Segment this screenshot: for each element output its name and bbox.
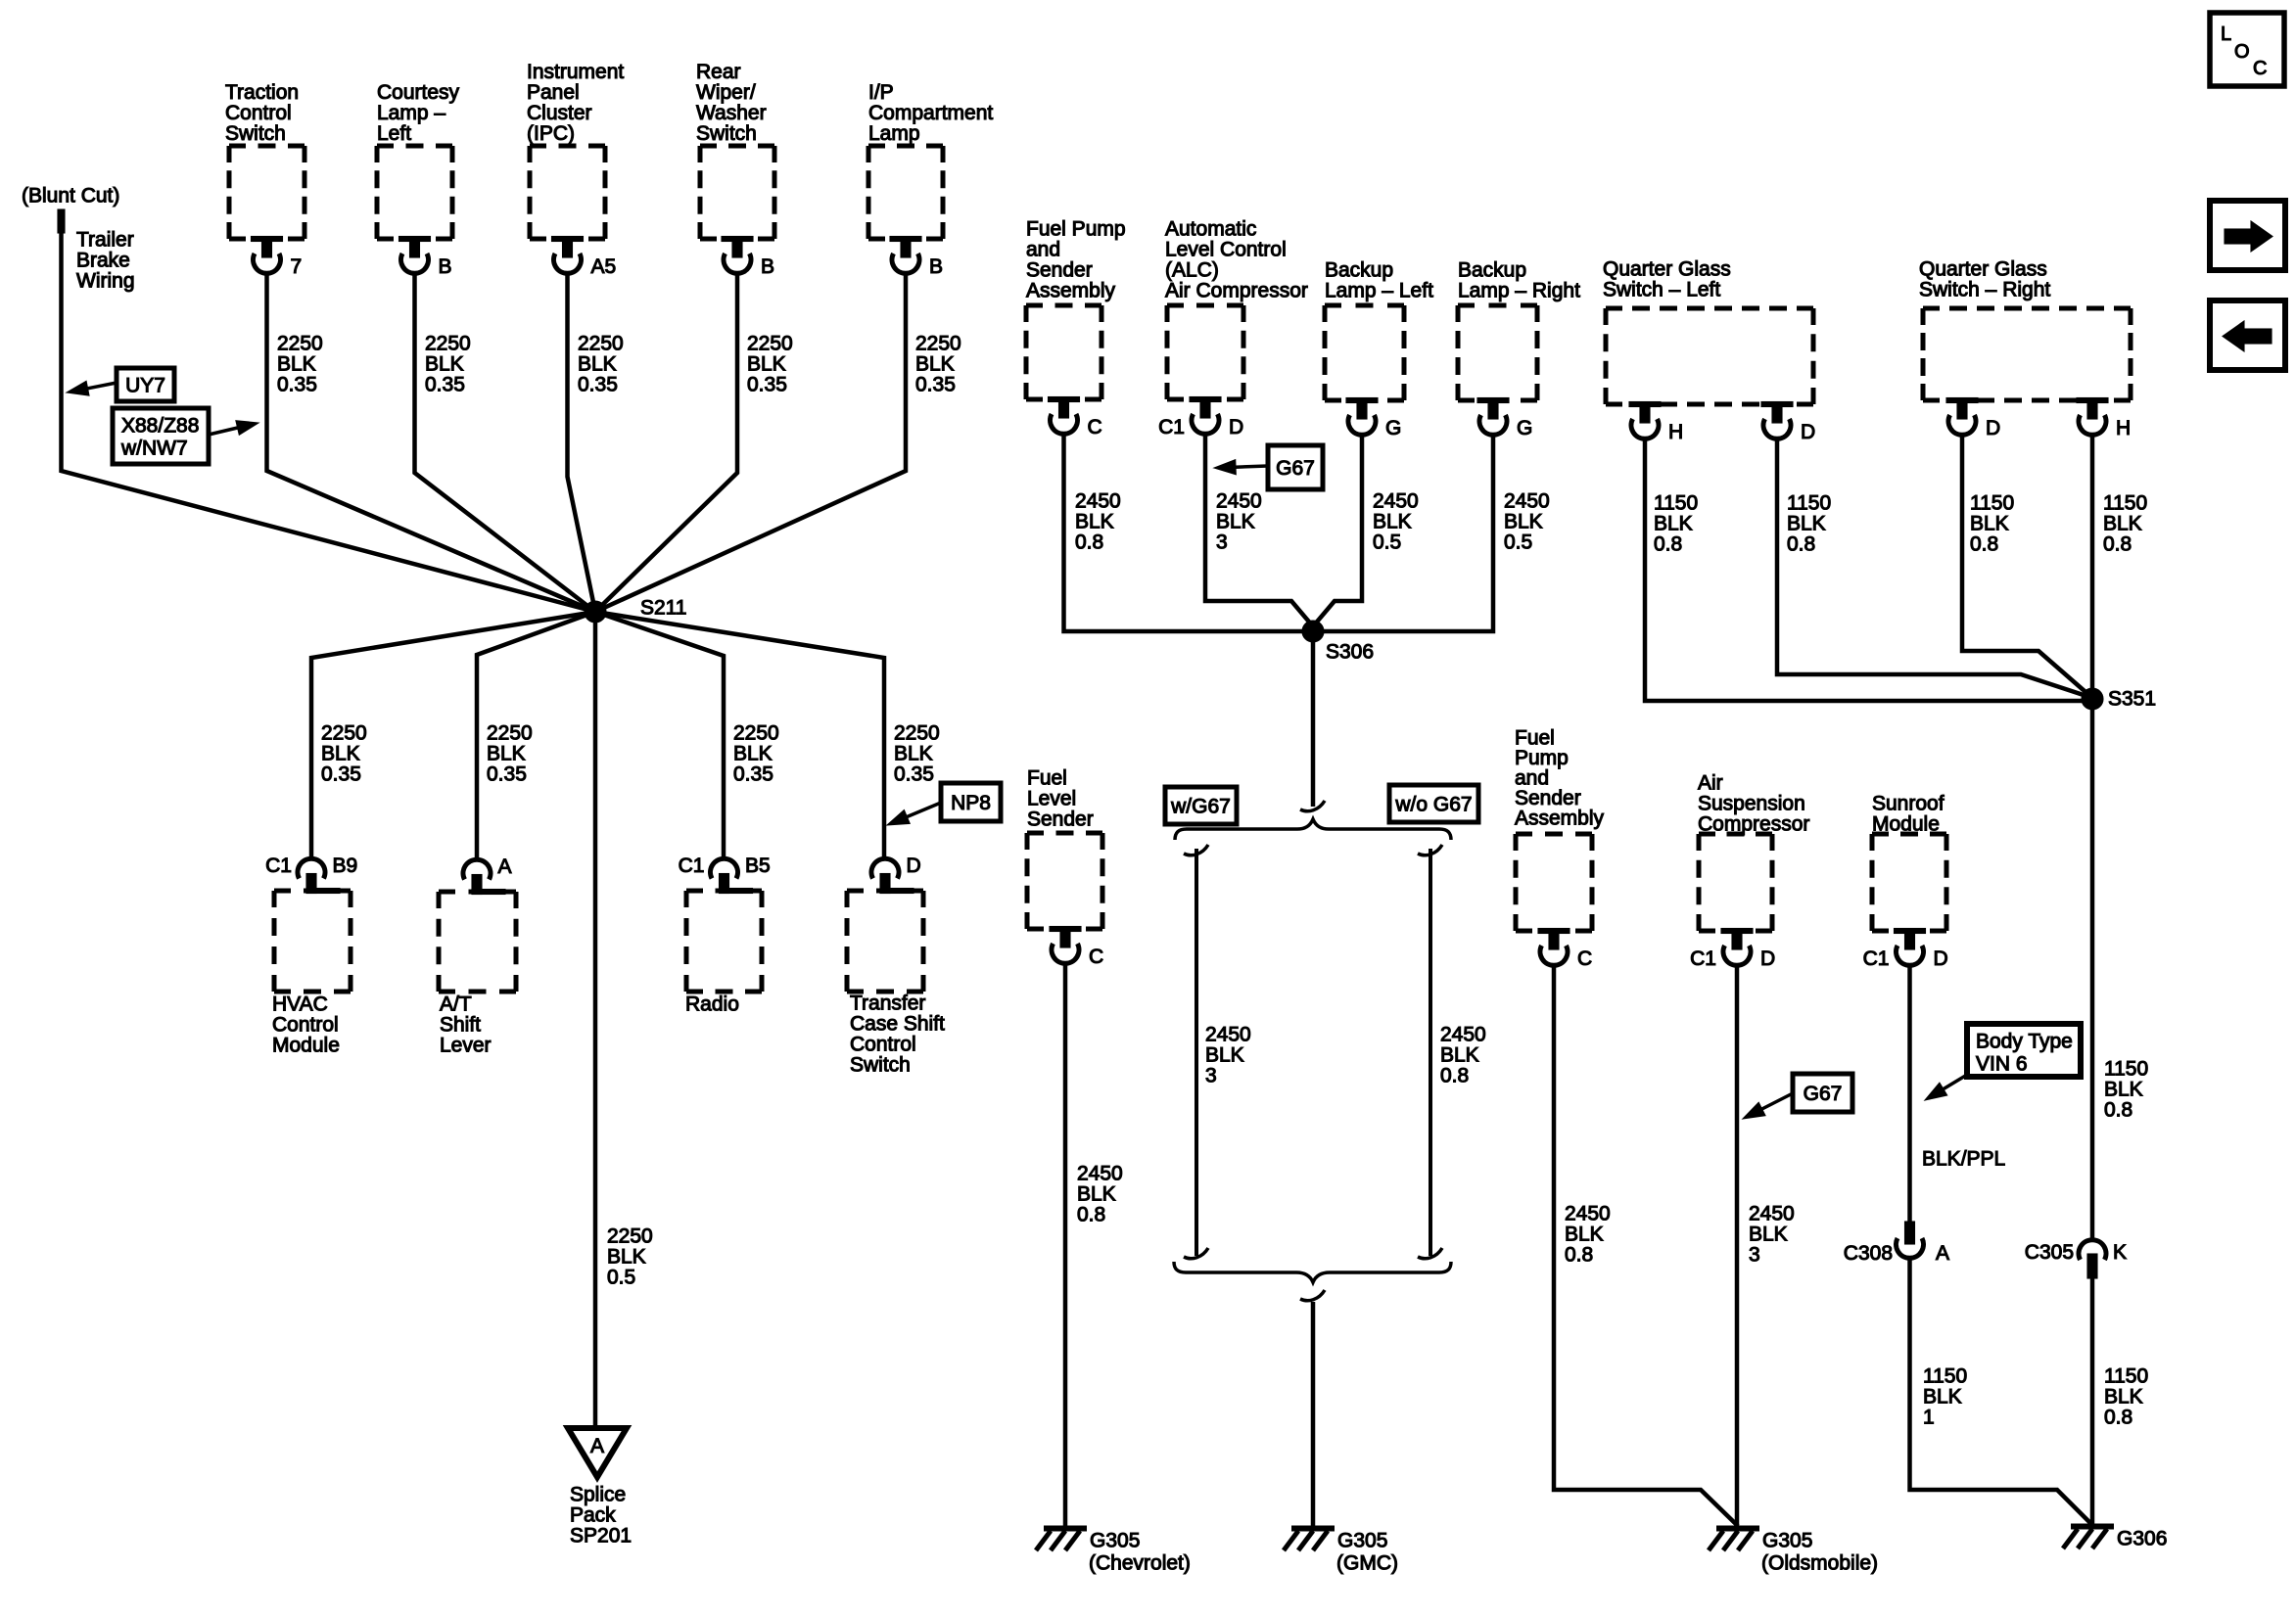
svg-text:Traction: Traction: [225, 81, 299, 104]
svg-text:O: O: [2234, 41, 2250, 63]
wire Instrument Panel Cluster to S211: [568, 273, 596, 612]
svg-text:Radio: Radio: [685, 993, 739, 1016]
label Automatic Level Control Air Compressor: [1165, 218, 1308, 302]
label A/T Shift Lever: [440, 993, 492, 1057]
svg-text:2250: 2250: [487, 722, 533, 745]
svg-text:D: D: [1801, 421, 1815, 443]
svg-text:Lever: Lever: [440, 1035, 492, 1057]
svg-text:BLK: BLK: [1787, 513, 1826, 535]
svg-text:BLK: BLK: [915, 353, 955, 376]
wire label 2250 BLK 0.5: [607, 1225, 653, 1289]
svg-text:G: G: [1385, 417, 1401, 439]
svg-text:D: D: [1760, 947, 1775, 970]
svg-text:1150: 1150: [2103, 492, 2147, 515]
svg-text:A: A: [590, 1435, 604, 1457]
svg-text:w/o G67: w/o G67: [1394, 794, 1472, 816]
component box Fuel Level Sender: [1027, 833, 1102, 929]
wire Rear Wiper Washer Switch to S211: [595, 273, 737, 612]
svg-text:BLK: BLK: [1373, 511, 1412, 533]
svg-text:7: 7: [291, 255, 303, 278]
ground G305 Oldsmobile: [1709, 1529, 1878, 1575]
svg-text:0.35: 0.35: [425, 374, 465, 396]
svg-text:C1: C1: [679, 855, 705, 877]
svg-text:and: and: [1026, 239, 1060, 261]
wire Fuel Pump C to S306: [1064, 434, 1314, 631]
callout w/o G67: [1389, 785, 1478, 822]
svg-text:0.35: 0.35: [578, 374, 618, 396]
svg-text:Body Type: Body Type: [1976, 1031, 2073, 1053]
wire Traction Control Switch to S211: [267, 273, 596, 612]
wire label 2250 BLK 0.35: [894, 722, 940, 786]
svg-text:0.8: 0.8: [1565, 1244, 1593, 1267]
connector pin B of Courtesy Lamp Left: [399, 237, 452, 279]
svg-text:S306: S306: [1326, 641, 1374, 664]
svg-text:BLK: BLK: [1654, 513, 1693, 535]
svg-text:0.35: 0.35: [321, 763, 361, 786]
wire Backup Lamp Right to S306: [1313, 435, 1493, 631]
splice S211: [585, 597, 687, 624]
svg-text:2450: 2450: [1216, 490, 1262, 513]
wire ALC D to S306: [1205, 434, 1313, 626]
wire label 2450 BLK 3: [1205, 1024, 1251, 1087]
component box Backup Lamp Right: [1458, 305, 1537, 400]
svg-text:0.8: 0.8: [2103, 533, 2132, 556]
svg-text:2450: 2450: [1440, 1024, 1486, 1046]
wire label 2250 BLK 0.35: [487, 722, 533, 786]
wire label 2250 BLK 0.35: [578, 333, 624, 396]
label Fuel Pump and Sender Assembly 2: [1515, 727, 1605, 830]
wire C305 K to ground G306: [2090, 1278, 2095, 1524]
connector pin 7 of Traction Control Switch: [252, 237, 303, 279]
svg-text:BLK: BLK: [747, 353, 786, 376]
svg-text:Transfer: Transfer: [850, 993, 925, 1015]
svg-text:C: C: [2253, 58, 2267, 79]
svg-text:B9: B9: [333, 855, 358, 877]
svg-text:(Blunt Cut): (Blunt Cut): [22, 185, 119, 208]
svg-text:BLK: BLK: [1923, 1386, 1962, 1409]
wire label 2250 BLK 0.35: [321, 722, 367, 786]
svg-text:0.5: 0.5: [1504, 531, 1532, 554]
connector pin B of Rear Wiper Washer Switch: [722, 237, 774, 279]
svg-text:0.35: 0.35: [894, 763, 934, 786]
svg-text:K: K: [2113, 1241, 2127, 1264]
svg-text:1150: 1150: [2104, 1058, 2148, 1081]
ground G305 GMC: [1284, 1529, 1398, 1575]
arrow G67 to Air Suspension wire: [1743, 1093, 1793, 1119]
svg-text:G: G: [1517, 417, 1532, 439]
icon arrow left box: [2210, 300, 2285, 370]
svg-text:G305: G305: [1337, 1530, 1387, 1552]
connector C1/B9 of HVAC Control Module: [265, 855, 357, 894]
svg-text:BLK/PPL: BLK/PPL: [1922, 1148, 2005, 1171]
svg-text:2250: 2250: [321, 722, 367, 745]
component box IP Compartment Lamp: [868, 146, 943, 239]
arrow NP8 to wire: [887, 803, 941, 825]
svg-text:UY7: UY7: [125, 375, 165, 397]
svg-text:A: A: [1936, 1242, 1949, 1265]
svg-text:Sender: Sender: [1026, 259, 1093, 282]
wire label 2450 BLK 3: [1749, 1203, 1795, 1267]
arrow X88/Z88 to wire: [209, 421, 258, 436]
wire label 2450 BLK 0.5: [1373, 490, 1419, 554]
wire label 1150 BLK 0.8: [1787, 492, 1831, 556]
svg-text:D: D: [907, 855, 921, 877]
svg-text:Quarter Glass: Quarter Glass: [1603, 258, 1731, 281]
wire label 2450 BLK 0.8: [1077, 1163, 1123, 1226]
component box A/T Shift Lever: [439, 892, 516, 992]
svg-text:3: 3: [1749, 1244, 1760, 1267]
connector C1/D of Air Suspension Compressor: [1690, 929, 1775, 971]
svg-text:Suspension: Suspension: [1698, 793, 1805, 815]
svg-text:Rear: Rear: [696, 61, 741, 83]
connector A of A/T Shift Lever: [463, 855, 512, 895]
wire label 2450 BLK 0.8: [1440, 1024, 1486, 1087]
svg-text:C308: C308: [1844, 1242, 1893, 1265]
break mark top w/o G67 branch: [1418, 845, 1442, 855]
label Trailer Brake Wiring: [76, 229, 135, 293]
label Rear Wiper Washer Switch: [696, 61, 767, 145]
connector G of Backup Lamp Right: [1477, 398, 1532, 440]
label Instrument Panel Cluster: [527, 61, 624, 145]
wire S211 to A/T Shift Lever: [477, 612, 595, 858]
svg-text:D: D: [1229, 416, 1243, 439]
svg-text:Instrument: Instrument: [527, 61, 624, 83]
svg-text:Level: Level: [1027, 788, 1076, 810]
label Fuel Level Sender: [1027, 767, 1094, 831]
svg-text:Backup: Backup: [1458, 259, 1526, 282]
wire Sunroof Module BLK/PPL: [1907, 965, 1912, 1222]
svg-text:BLK: BLK: [1504, 511, 1543, 533]
svg-text:BLK: BLK: [2104, 1079, 2143, 1101]
svg-text:Splice: Splice: [570, 1484, 626, 1506]
svg-text:Trailer: Trailer: [76, 229, 134, 252]
wire label 2450 BLK 0.8: [1565, 1203, 1611, 1267]
svg-text:1150: 1150: [2104, 1365, 2148, 1388]
wire label 2450 BLK 0.5: [1504, 490, 1550, 554]
arrow Body Type VIN 6 to wire: [1925, 1075, 1967, 1100]
ground G305 Chevrolet: [1036, 1529, 1191, 1575]
label Quarter Glass Switch Left: [1603, 258, 1731, 301]
svg-text:Case Shift: Case Shift: [850, 1013, 945, 1036]
label Traction Control Switch: [225, 81, 299, 145]
svg-text:B5: B5: [745, 855, 771, 877]
svg-text:2250: 2250: [578, 333, 624, 355]
wire label 2250 BLK 0.35: [747, 333, 793, 396]
svg-text:BLK: BLK: [1970, 513, 2009, 535]
svg-text:Automatic: Automatic: [1165, 218, 1256, 241]
svg-text:0.5: 0.5: [1373, 531, 1401, 554]
svg-text:1150: 1150: [1787, 492, 1831, 515]
svg-text:BLK: BLK: [2103, 513, 2142, 535]
svg-text:1150: 1150: [1970, 492, 2014, 515]
svg-text:G67: G67: [1276, 457, 1315, 480]
svg-text:Control: Control: [850, 1034, 916, 1056]
svg-text:BLK: BLK: [487, 743, 526, 765]
svg-text:Backup: Backup: [1325, 259, 1393, 282]
svg-text:Cluster: Cluster: [527, 102, 592, 124]
svg-text:VIN 6: VIN 6: [1976, 1053, 2028, 1076]
svg-text:BLK: BLK: [1565, 1224, 1604, 1246]
component box Sunroof Module: [1872, 834, 1946, 931]
svg-text:Switch: Switch: [225, 122, 286, 145]
svg-text:2450: 2450: [1077, 1163, 1123, 1185]
component box Quarter Glass Switch Right: [1923, 308, 2131, 400]
svg-text:0.8: 0.8: [2104, 1407, 2132, 1429]
svg-text:0.8: 0.8: [1440, 1065, 1469, 1087]
label Backup Lamp Left: [1325, 259, 1433, 302]
svg-text:Lamp: Lamp: [868, 122, 920, 145]
svg-text:Switch – Right: Switch – Right: [1919, 279, 2050, 301]
wire label 2250 BLK 0.35: [733, 722, 779, 786]
svg-text:Control: Control: [225, 102, 292, 124]
wire Backup Lamp Left to S306: [1313, 435, 1362, 626]
connector G of Backup Lamp Left: [1346, 398, 1401, 440]
svg-text:2450: 2450: [1565, 1203, 1611, 1225]
inline connector C305 pin K: [2025, 1240, 2127, 1278]
svg-text:BLK: BLK: [578, 353, 617, 376]
wire label 2450 BLK 0.8: [1075, 490, 1121, 554]
svg-text:0.35: 0.35: [277, 374, 317, 396]
svg-text:BLK: BLK: [1440, 1044, 1479, 1067]
svg-text:0.35: 0.35: [915, 374, 956, 396]
svg-text:NP8: NP8: [951, 792, 991, 814]
break mark bottom w/G67 branch: [1184, 1248, 1208, 1259]
svg-text:B: B: [439, 255, 452, 278]
wire label 1150 BLK 0.8 upper: [2104, 1058, 2148, 1122]
svg-text:2250: 2250: [894, 722, 940, 745]
svg-text:(IPC): (IPC): [527, 122, 575, 145]
label Backup Lamp Right: [1458, 259, 1580, 302]
svg-text:C1: C1: [265, 855, 292, 877]
svg-text:0.8: 0.8: [1970, 533, 1998, 556]
svg-text:A: A: [498, 855, 512, 878]
label IP Compartment Lamp: [868, 81, 993, 145]
svg-text:0.8: 0.8: [2104, 1099, 2132, 1122]
label Transfer Case Shift Control Switch: [850, 993, 945, 1077]
break mark top w/G67 branch: [1184, 845, 1208, 855]
svg-text:L: L: [2221, 23, 2231, 45]
svg-text:BLK: BLK: [1205, 1044, 1244, 1067]
svg-text:2250: 2250: [915, 333, 961, 355]
svg-text:Air Compressor: Air Compressor: [1165, 280, 1308, 302]
wire label 1150 BLK 0.8: [1970, 492, 2014, 556]
svg-text:0.8: 0.8: [1654, 533, 1682, 556]
svg-text:0.35: 0.35: [487, 763, 527, 786]
svg-text:2250: 2250: [747, 333, 793, 355]
svg-text:A5: A5: [591, 255, 617, 278]
svg-text:HVAC: HVAC: [272, 993, 328, 1016]
icon arrow right box: [2210, 201, 2285, 270]
svg-text:C: C: [1577, 947, 1592, 970]
svg-text:BLK: BLK: [1216, 511, 1255, 533]
connector D of Transfer Case Shift Control Switch: [871, 855, 921, 894]
svg-text:BLK: BLK: [1075, 511, 1114, 533]
svg-text:C: C: [1088, 416, 1102, 439]
svg-text:0.8: 0.8: [1075, 531, 1103, 554]
svg-text:G306: G306: [2117, 1528, 2167, 1550]
svg-text:Switch – Left: Switch – Left: [1603, 279, 1720, 301]
break mark below S306: [1300, 801, 1325, 811]
svg-text:BLK: BLK: [733, 743, 773, 765]
svg-text:2250: 2250: [425, 333, 471, 355]
component box Transfer Case Shift Control Switch: [847, 891, 923, 992]
svg-text:(ALC): (ALC): [1165, 259, 1219, 282]
component box Fuel Pump and Sender Assembly: [1026, 305, 1101, 399]
svg-text:SP201: SP201: [570, 1525, 632, 1548]
label Fuel Pump and Sender Assembly: [1026, 218, 1126, 302]
svg-text:Fuel Pump: Fuel Pump: [1026, 218, 1126, 241]
wire C308 A to ground G306: [1910, 1259, 2093, 1525]
connector H of Quarter Glass Switch Right: [2077, 398, 2131, 440]
svg-text:B: B: [929, 255, 943, 278]
svg-text:BLK: BLK: [277, 353, 316, 376]
break mark above GMC ground wire: [1300, 1290, 1325, 1301]
svg-text:C1: C1: [1863, 947, 1890, 970]
wire Fuel Pump 2 to ground G305 Oldsmobile: [1554, 965, 1738, 1526]
svg-text:Compartment: Compartment: [868, 102, 993, 124]
svg-text:BLK: BLK: [2104, 1386, 2143, 1409]
svg-text:G67: G67: [1804, 1083, 1843, 1105]
callout w/G67: [1165, 787, 1237, 824]
connector D of Quarter Glass Switch Left: [1761, 402, 1815, 444]
callout G67 2: [1793, 1074, 1852, 1112]
wire S211 to HVAC Control Module: [311, 612, 595, 858]
svg-text:2450: 2450: [1749, 1203, 1795, 1225]
svg-text:Lamp – Right: Lamp – Right: [1458, 280, 1580, 302]
connector H of Quarter Glass Switch Left: [1629, 402, 1683, 444]
svg-text:w/G67: w/G67: [1170, 796, 1231, 818]
connector C1/D of Sunroof Module: [1863, 929, 1948, 971]
component box Traction Control Switch: [229, 146, 305, 239]
svg-text:Sender: Sender: [1027, 808, 1094, 831]
svg-text:2250: 2250: [607, 1225, 653, 1248]
component box Rear Wiper Washer Switch: [700, 146, 774, 239]
wire QG Right H through S351 to C305: [2090, 435, 2095, 1239]
svg-text:0.35: 0.35: [733, 763, 773, 786]
brace lower w/G67 merge: [1174, 1262, 1451, 1282]
svg-text:B: B: [761, 255, 774, 278]
wire QG Right D to S351: [1962, 435, 2092, 698]
svg-text:Courtesy: Courtesy: [377, 81, 460, 104]
svg-text:(Chevrolet): (Chevrolet): [1089, 1552, 1191, 1575]
label Splice Pack SP201: [570, 1484, 632, 1548]
svg-text:2450: 2450: [1504, 490, 1550, 513]
wire QG Left D to S351: [1777, 439, 2092, 698]
svg-text:0.5: 0.5: [607, 1267, 635, 1289]
label Quarter Glass Switch Right: [1919, 258, 2050, 301]
component box Courtesy Lamp Left: [377, 146, 452, 239]
svg-text:Lamp –: Lamp –: [377, 102, 445, 124]
connector pin A5 of Instrument Panel Cluster: [552, 237, 617, 279]
svg-text:Pack: Pack: [570, 1504, 616, 1527]
wire branch w/o G67: [1429, 849, 1432, 1256]
arrow G67 to ALC wire: [1214, 460, 1268, 475]
wire to ground G305 GMC: [1311, 1302, 1316, 1527]
svg-text:Washer: Washer: [696, 102, 767, 124]
connector C1/D of ALC Air Compressor: [1158, 397, 1243, 439]
connector C of Fuel Level Sender: [1050, 927, 1103, 969]
wire S211 to Transfer Case Shift Control Switch: [595, 612, 884, 858]
component box ALC Air Compressor: [1167, 305, 1243, 399]
wire label 1150 BLK 0.8: [2103, 492, 2147, 556]
component box Radio: [686, 891, 762, 992]
wire branch w/G67: [1195, 849, 1198, 1256]
ground G306: [2063, 1527, 2167, 1550]
svg-text:BLK: BLK: [1749, 1224, 1788, 1246]
svg-text:BLK: BLK: [894, 743, 933, 765]
component box Fuel Pump and Sender Assembly 2: [1516, 834, 1592, 931]
connector C of Fuel Pump and Sender Assembly 2: [1538, 929, 1592, 971]
wire IP Compartment Lamp to S211: [595, 273, 906, 612]
svg-text:BLK: BLK: [1077, 1183, 1116, 1206]
brace upper w/G67 split: [1175, 819, 1451, 840]
wire label 1150 BLK 0.8: [2104, 1365, 2148, 1429]
svg-text:Assembly: Assembly: [1515, 808, 1605, 830]
component box Air Suspension Compressor: [1699, 834, 1772, 931]
svg-text:C305: C305: [2025, 1241, 2074, 1264]
wire trailer brake to S211: [62, 233, 596, 612]
svg-text:G305: G305: [1762, 1530, 1812, 1552]
svg-text:3: 3: [1216, 531, 1228, 554]
svg-text:Shift: Shift: [440, 1014, 481, 1037]
connector pin B of IP Compartment Lamp: [890, 237, 943, 279]
inline connector C308 pin A: [1844, 1222, 1949, 1265]
wire label 1150 BLK 0.8: [1654, 492, 1698, 556]
label Courtesy Lamp Left: [377, 81, 460, 145]
svg-text:2250: 2250: [277, 333, 323, 355]
svg-text:H: H: [1668, 421, 1683, 443]
svg-text:C1: C1: [1690, 947, 1716, 970]
svg-text:2450: 2450: [1075, 490, 1121, 513]
component box HVAC Control Module: [274, 891, 351, 992]
callout Body Type VIN 6: [1967, 1024, 2081, 1077]
svg-text:w/NW7: w/NW7: [120, 438, 188, 460]
svg-text:(Oldsmobile): (Oldsmobile): [1761, 1552, 1878, 1575]
label Air Suspension Compressor: [1698, 772, 1809, 836]
wire S306 down to split: [1311, 638, 1316, 807]
svg-text:Wiring: Wiring: [76, 270, 135, 293]
callout G67: [1268, 445, 1323, 489]
wire label 2250 BLK 0.35: [915, 333, 961, 396]
wire S211 to Radio: [595, 612, 724, 858]
wire Courtesy Lamp Left to S211: [415, 273, 596, 612]
wire QG Left H to S351: [1645, 439, 2092, 701]
svg-text:Lamp – Left: Lamp – Left: [1325, 280, 1433, 302]
connector C1/B5 of Radio: [679, 855, 771, 894]
splice pack A triangle: [568, 1428, 627, 1477]
svg-text:1: 1: [1923, 1407, 1935, 1429]
svg-text:Module: Module: [272, 1035, 340, 1057]
svg-text:Brake: Brake: [76, 250, 130, 272]
svg-text:Assembly: Assembly: [1026, 280, 1116, 302]
svg-text:Air: Air: [1698, 772, 1723, 795]
callout UY7: [117, 368, 174, 401]
svg-text:BLK: BLK: [425, 353, 464, 376]
svg-text:1150: 1150: [1923, 1365, 1967, 1388]
svg-text:0.35: 0.35: [747, 374, 787, 396]
svg-text:I/P: I/P: [868, 81, 894, 104]
blunt cut terminal mark: [58, 209, 65, 233]
callout X88/Z88 w/NW7: [113, 408, 209, 464]
svg-text:D: D: [1934, 947, 1948, 970]
svg-text:Quarter Glass: Quarter Glass: [1919, 258, 2047, 281]
component box Backup Lamp Left: [1325, 305, 1404, 400]
svg-text:C: C: [1089, 946, 1103, 968]
svg-text:Level Control: Level Control: [1165, 239, 1287, 261]
wire label 2250 BLK 0.35: [277, 333, 323, 396]
component box Instrument Panel Cluster: [530, 146, 605, 239]
wire Fuel Level Sender to ground G305 Chevrolet: [1063, 963, 1068, 1527]
